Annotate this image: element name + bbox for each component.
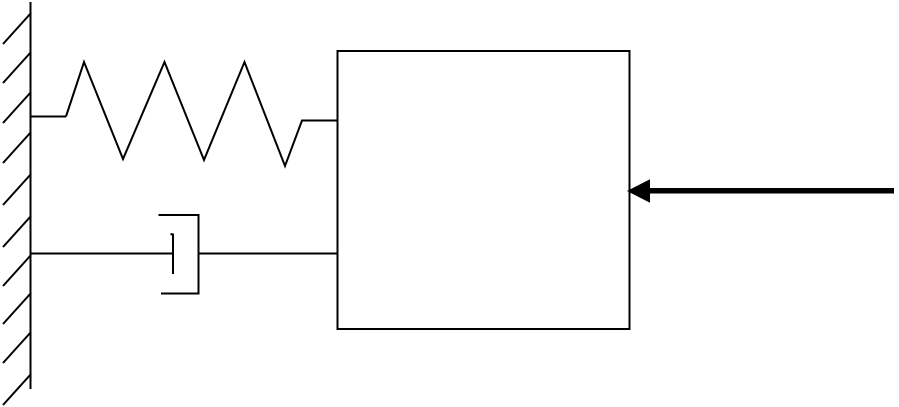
damper right rod (199, 253, 338, 255)
force arrow shaft (648, 188, 894, 194)
wall hatch 7 (3, 255, 31, 286)
wall hatch 1 (3, 13, 31, 44)
mass block (338, 51, 630, 329)
spring (66, 62, 338, 166)
spring anchor rod (31, 116, 67, 118)
damper cylinder (159, 215, 199, 294)
wall hatch 8 (3, 293, 31, 324)
wall hatch 9 (3, 332, 31, 363)
damper piston (171, 234, 174, 274)
wall hatch 3 (3, 92, 31, 123)
wall hatch 2 (3, 52, 31, 83)
force arrow head (627, 179, 650, 203)
wall hatch 5 (3, 174, 31, 205)
damper left rod (31, 253, 173, 255)
wall (30, 2, 32, 389)
wall hatch 10 (3, 374, 31, 405)
wall hatch 4 (3, 132, 31, 163)
wall hatch 6 (3, 216, 31, 247)
